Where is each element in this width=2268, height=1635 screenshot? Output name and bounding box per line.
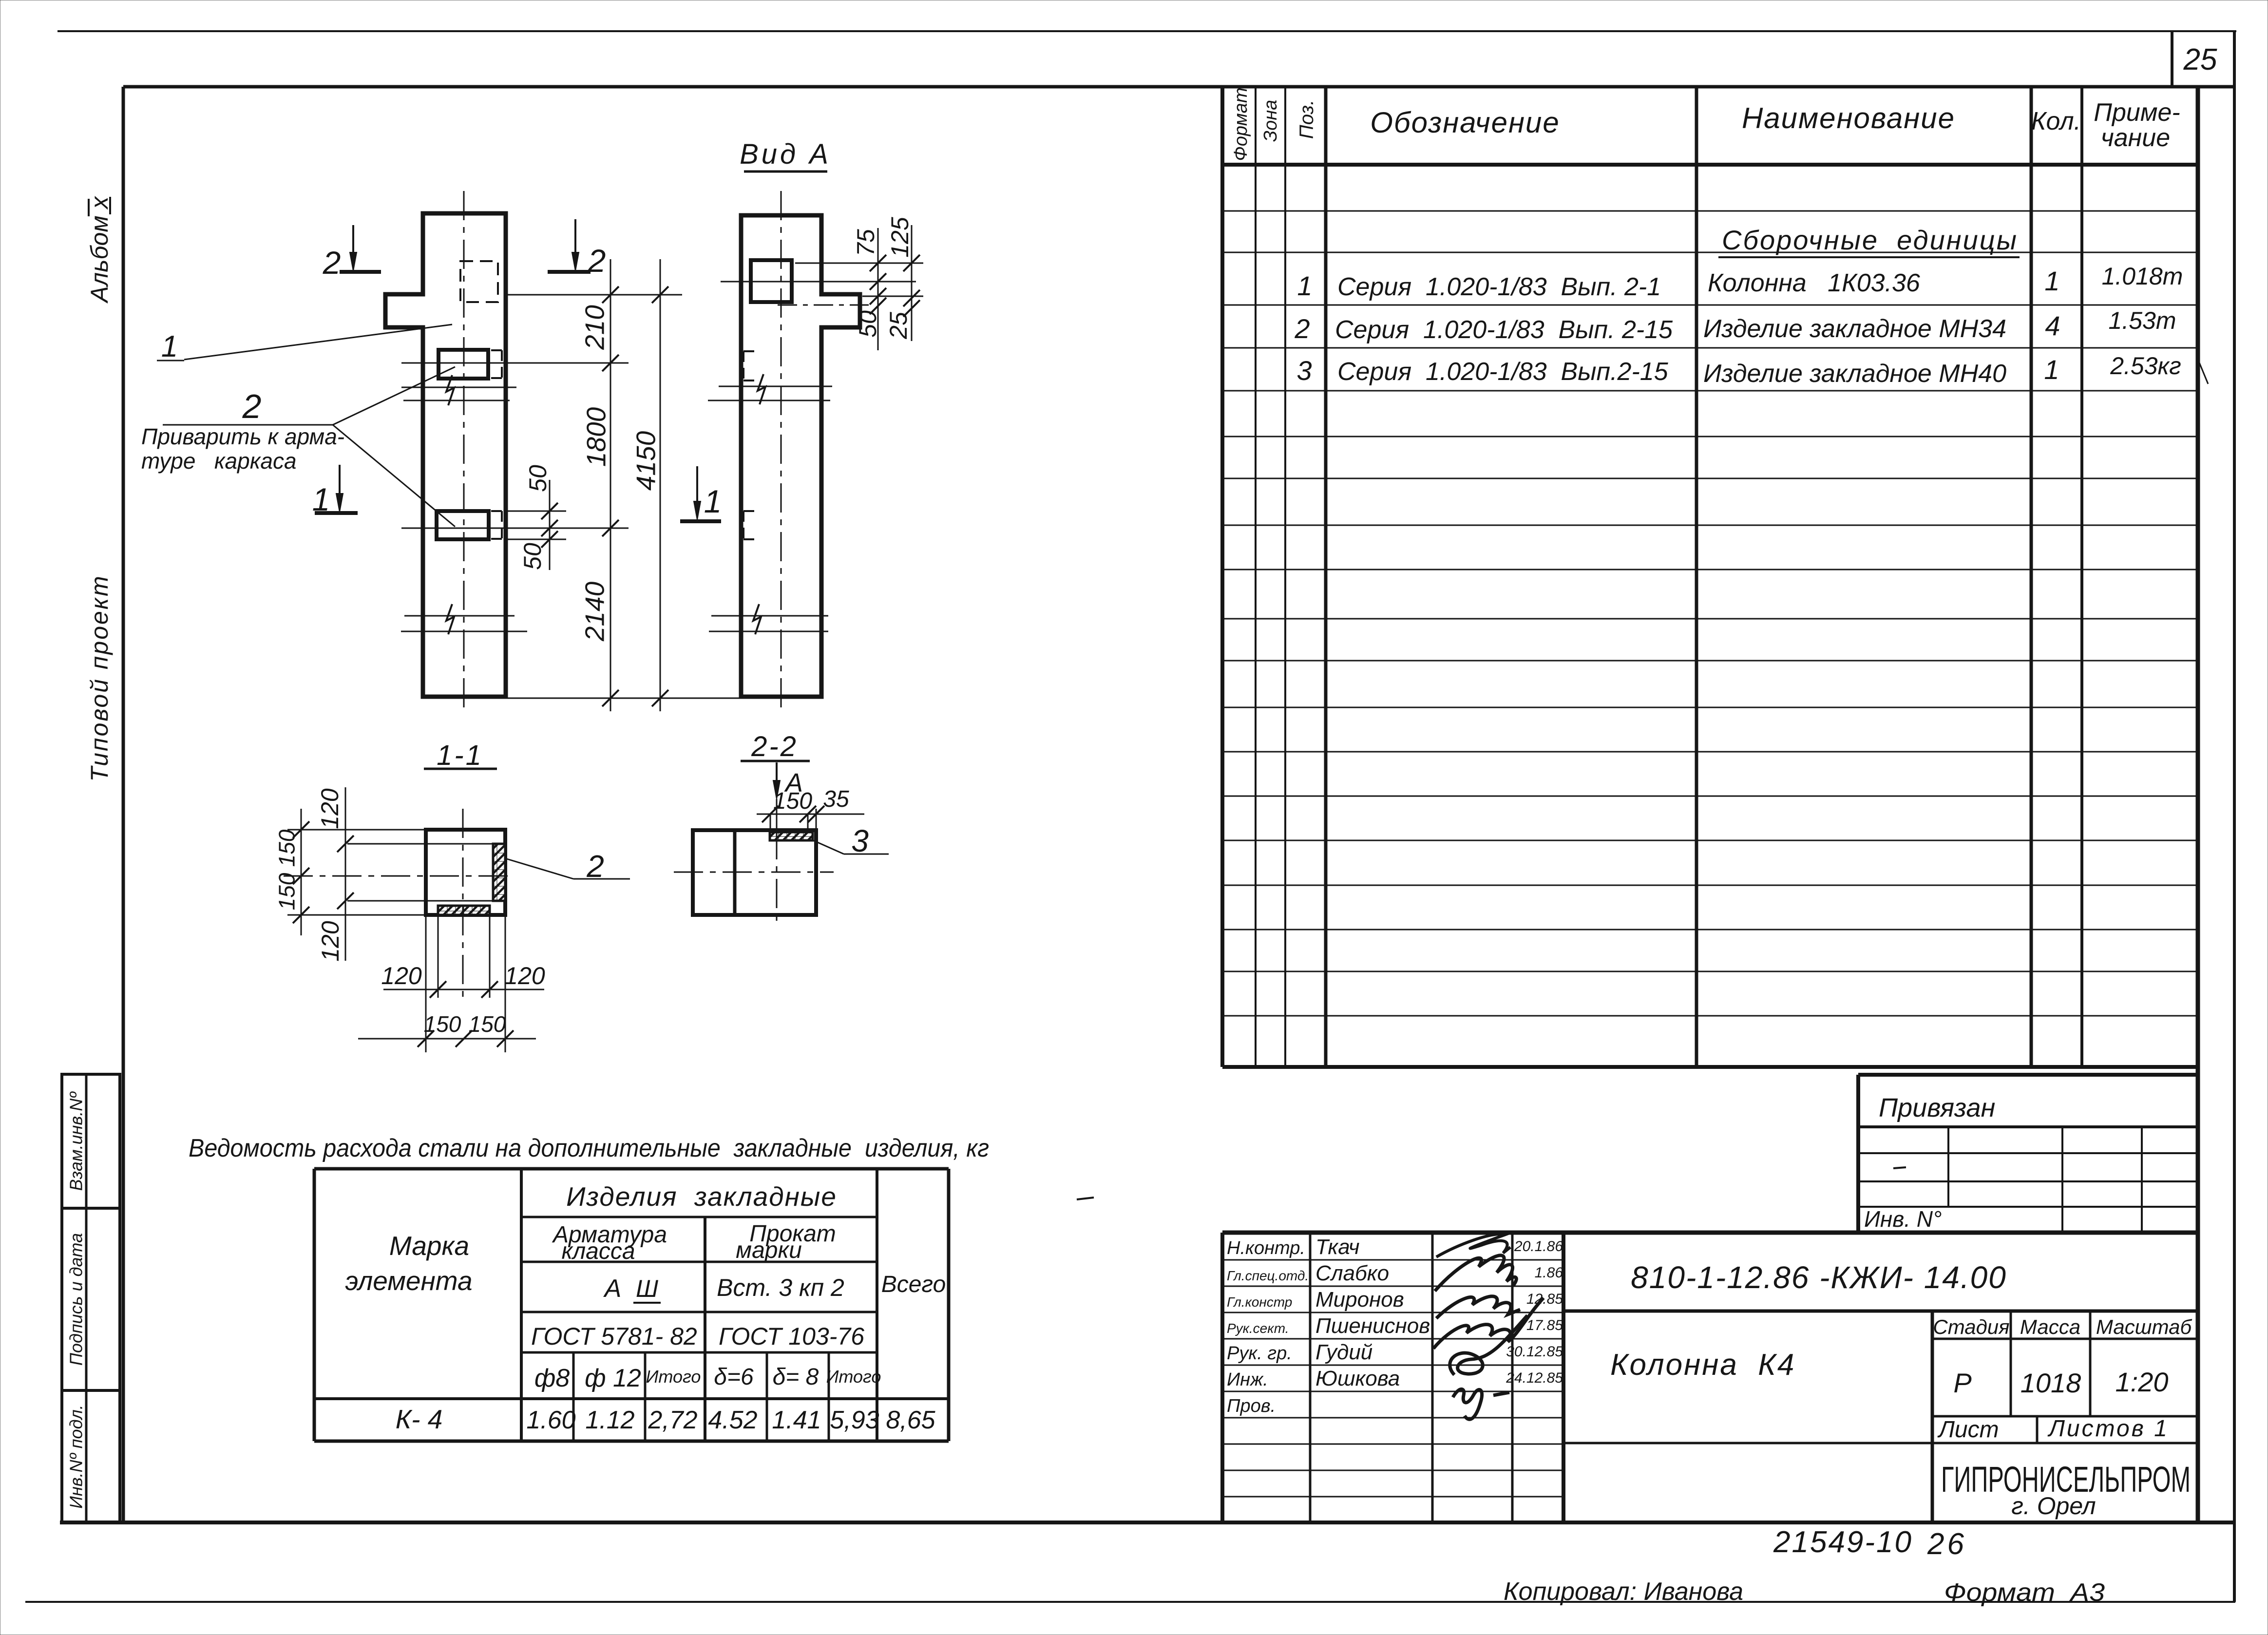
svg-text:г. Орел: г. Орел [2011,1492,2096,1520]
hidden embedded plate (dashed) [460,261,498,302]
svg-text:810-1-12.86 -КЖИ- 14.00: 810-1-12.86 -КЖИ- 14.00 [1631,1260,2007,1295]
svg-text:Альбом х: Альбом х [86,196,113,304]
svg-text:150: 150 [424,1011,461,1037]
svg-text:4.52: 4.52 [708,1406,757,1434]
svg-text:24.12.85: 24.12.85 [1506,1370,1563,1386]
dashed bracket at lower plate [501,511,503,539]
dimension line 4150 [660,259,661,711]
svg-text:3: 3 [1296,355,1312,386]
svg-text:Масштаб: Масштаб [2096,1315,2192,1338]
svg-text:Итого: Итого [826,1367,881,1387]
section 2-2 outline [693,830,816,915]
svg-text:1: 1 [2044,354,2059,385]
svg-text:марки: марки [736,1237,802,1263]
svg-text:1018: 1018 [2020,1368,2081,1398]
view arrow A [776,762,778,793]
svg-text:2: 2 [586,849,604,884]
section 1-1 left dim line 120/120 [345,787,346,961]
dashed bracket at upper plate [501,350,503,378]
svg-text:Ведомость расхода стали на доп: Ведомость расхода стали на дополнительны… [189,1134,989,1162]
svg-text:ф8: ф8 [534,1364,570,1392]
svg-text:25: 25 [2183,43,2217,76]
section 2-2 leader 3 [813,840,844,854]
break lines lower [404,615,515,617]
svg-text:21549-10: 21549-10 [1773,1525,1913,1559]
svg-text:75: 75 [852,229,879,256]
svg-text:1:20: 1:20 [2116,1367,2169,1397]
section 1-1 bottom dim line 150/150 [358,1038,536,1040]
section 1-1 plate bottom (hatched) [438,906,490,915]
title block grid [1222,1231,2198,1235]
centerline of column [463,191,465,712]
svg-text:2: 2 [588,243,606,279]
sheet margin bottom line [25,1601,2235,1603]
svg-text:150: 150 [773,788,812,814]
svg-text:1.60: 1.60 [526,1406,575,1434]
svg-text:Инв.Nº подл.: Инв.Nº подл. [66,1405,86,1509]
svg-text:2: 2 [1294,313,1310,344]
svg-text:4150: 4150 [631,431,661,491]
section 1-1 centerlines [462,809,464,998]
view A dim extensions [795,263,923,264]
svg-text:Рук. гр.: Рук. гр. [1227,1343,1292,1364]
svg-text:Серия 1.020-1/83 Вып. 2-15: Серия 1.020-1/83 Вып. 2-15 [1335,316,1673,344]
svg-text:25: 25 [885,312,912,340]
svg-text:120: 120 [317,921,344,962]
svg-text:Лист: Лист [1937,1417,1999,1443]
section 1-1 leader 2 [505,858,573,879]
svg-text:1.12: 1.12 [585,1406,634,1434]
svg-text:Инж.: Инж. [1227,1369,1268,1390]
view A centerline [781,191,782,711]
svg-text:Листов 1: Листов 1 [2047,1416,2169,1442]
svg-text:Колонна К4: Колонна К4 [1610,1348,1795,1382]
svg-text:2,72: 2,72 [648,1406,697,1434]
svg-text:Масса: Масса [2020,1315,2080,1338]
svg-text:Копировал: Иванова: Копировал: Иванова [1504,1578,1743,1606]
svg-text:Кол.: Кол. [2031,107,2081,135]
svg-text:Подпись и дата: Подпись и дата [66,1233,86,1366]
svg-text:1: 1 [2044,266,2059,296]
svg-text:Сборочные единицы: Сборочные единицы [1722,225,2018,255]
svg-text:δ=6: δ=6 [714,1364,754,1390]
svg-text:Серия 1.020-1/83 Вып. 2-1: Серия 1.020-1/83 Вып. 2-1 [1337,273,1661,301]
break lines upper [401,387,516,388]
svg-text:26: 26 [1927,1527,1967,1561]
svg-text:Н.контр.: Н.контр. [1227,1238,1305,1258]
svg-text:Марка: Марка [389,1231,469,1261]
svg-text:Обозначение: Обозначение [1370,106,1560,139]
view A dim line 125/25 [911,225,913,341]
svg-text:ГОСТ 5781- 82: ГОСТ 5781- 82 [531,1323,697,1350]
svg-text:Инв. N°: Инв. N° [1864,1206,1942,1232]
section 2-2 inner edge [733,830,737,915]
svg-text:1.86: 1.86 [1535,1265,1563,1281]
section 1-1 plate right (hatched) [493,844,505,901]
view A break lines lower [711,615,828,617]
section mark 1 (left) [315,511,358,515]
svg-text:125: 125 [886,217,914,258]
svg-text:120: 120 [381,962,422,989]
svg-text:Приварить к арма-: Приварить к арма- [141,424,344,449]
svg-text:А: А [603,1274,622,1303]
signatures (handwritten) [1436,1234,1510,1257]
svg-text:1.41: 1.41 [772,1406,821,1434]
svg-text:Стадия: Стадия [1933,1315,2009,1338]
section 1-1 outline [426,830,505,915]
svg-text:50: 50 [854,310,881,338]
stray mark [1077,1198,1094,1199]
sheet margin top line [57,30,2236,32]
svg-text:5,93: 5,93 [830,1406,879,1434]
svg-text:150: 150 [274,829,300,867]
svg-text:17.85: 17.85 [1526,1317,1563,1333]
svg-text:1.018т: 1.018т [2102,263,2183,290]
small 50/50 dims at lower plate [504,511,566,512]
svg-text:Поз.: Поз. [1296,100,1317,139]
svg-text:1-1: 1-1 [437,740,483,771]
steel table grid [313,1169,316,1441]
svg-text:Гл.спец.отд.: Гл.спец.отд. [1227,1268,1309,1283]
view A break lines upper [719,386,832,387]
svg-text:ф 12: ф 12 [585,1364,641,1392]
svg-text:Слабко: Слабко [1315,1261,1389,1285]
svg-text:2: 2 [242,387,262,425]
svg-text:4: 4 [2045,310,2060,341]
svg-text:1: 1 [704,483,722,519]
svg-text:8,65: 8,65 [886,1406,935,1434]
section mark 2 (left) [340,270,381,274]
svg-text:120: 120 [316,788,343,829]
svg-text:Всего: Всего [881,1272,946,1297]
svg-text:12.85: 12.85 [1526,1291,1563,1307]
svg-text:класса: класса [561,1238,635,1264]
svg-text:Гудий: Гудий [1315,1340,1372,1364]
svg-text:2-2: 2-2 [751,731,798,762]
section 2-2 dims 150/35 [757,814,864,815]
section mark 2 (right) [548,270,591,274]
svg-text:Приме-: Приме- [2094,98,2180,127]
svg-text:Изделия закладные: Изделия закладные [566,1181,837,1212]
svg-text:35: 35 [823,786,849,812]
view A dim line 75/50 [877,228,879,350]
svg-text:Рук.сект.: Рук.сект. [1227,1321,1289,1336]
svg-text:Привязан: Привязан [1879,1093,1995,1122]
svg-text:Итого: Итого [646,1367,701,1387]
svg-text:150: 150 [274,873,300,910]
svg-text:Вид А: Вид А [740,138,831,170]
svg-text:3: 3 [851,823,869,858]
svg-text:1: 1 [1297,270,1312,301]
column K4 view A outline [741,215,860,697]
section 1-1 left extensions [287,829,426,831]
section 2-2 centerlines [776,799,778,830]
svg-text:Пшениснов: Пшениснов [1315,1314,1430,1338]
svg-text:δ= 8: δ= 8 [773,1364,819,1390]
svg-text:Серия 1.020-1/83 Вып.2-15: Серия 1.020-1/83 Вып.2-15 [1337,358,1669,386]
svg-text:туре каркаса: туре каркаса [141,448,297,474]
svg-text:Юшкова: Юшкова [1315,1367,1400,1390]
svg-text:50: 50 [519,543,546,570]
svg-text:Пров.: Пров. [1227,1396,1276,1416]
embedded plate MH34 lower [437,511,489,539]
dashed plate edge lower [743,511,744,539]
svg-text:Гл.констр: Гл.констр [1227,1294,1292,1310]
svg-text:Формат: Формат [1231,88,1251,161]
svg-text:210: 210 [580,305,610,350]
svg-text:элемента: элемента [345,1266,472,1296]
embedded plate MH34 upper [438,350,488,379]
column K4 elevation (view 1) outline [385,213,506,697]
svg-text:Изделие закладное МН34: Изделие закладное МН34 [1703,315,2006,343]
section 1-1 bottom dim line 120/120 [383,989,544,990]
specification table grid [1220,87,1224,1067]
svg-text:Типовой проект: Типовой проект [86,574,113,781]
page number box 25 [2171,31,2173,87]
stamp box Подпись и дата [62,1208,120,1390]
section 2-2 plate (hatched) [770,832,813,840]
svg-text:2140: 2140 [580,581,610,642]
dimension line chain 210/1800/2140 [610,259,611,711]
svg-text:2: 2 [323,245,341,281]
stamp box Инв.№ подл. [62,1390,120,1522]
stamp box Взам.инв.№ [62,1074,120,1208]
svg-text:Колонна 1К03.36: Колонна 1К03.36 [1708,269,1920,297]
dashed plate edge upper [743,351,744,380]
svg-text:2.53кг: 2.53кг [2110,352,2181,380]
upper plate axis line [401,362,629,364]
dimension extension lines [506,294,682,296]
section mark 1 (right) [680,519,721,523]
svg-text:20.1.86: 20.1.86 [1514,1238,1563,1255]
svg-text:Миронов: Миронов [1315,1288,1404,1312]
svg-text:1800: 1800 [581,407,611,467]
svg-text:50: 50 [524,465,552,492]
svg-text:Зона: Зона [1260,100,1281,142]
svg-text:Ткач: Ткач [1315,1235,1360,1259]
svg-text:Взам.инв.Nº: Взам.инв.Nº [66,1091,86,1191]
svg-text:1.53т: 1.53т [2109,307,2176,334]
section 1-1 left dim line 150/150 [301,809,302,935]
svg-text:чание: чание [2101,124,2170,152]
svg-text:Ш: Ш [636,1275,659,1302]
frame border [123,85,2234,89]
svg-text:120: 120 [504,962,545,989]
svg-text:К- 4: К- 4 [396,1404,443,1434]
corbel axis dash-dot [778,304,869,306]
svg-text:Изделие закладное МН40: Изделие закладное МН40 [1703,360,2006,388]
view A embedded plate MH40 [751,260,792,302]
svg-text:Наименование: Наименование [1742,102,1955,134]
lower plate axis line [401,528,629,529]
svg-text:Формат А3: Формат А3 [1944,1578,2105,1607]
section 1-1 bottom extensions [425,915,427,1052]
svg-text:150: 150 [469,1011,506,1037]
svg-text:1: 1 [312,481,330,517]
svg-text:Р: Р [1953,1368,1971,1398]
svg-text:ГОСТ 103-76: ГОСТ 103-76 [719,1323,864,1350]
Привязан box [1858,1073,2198,1077]
svg-text:30.12.85: 30.12.85 [1506,1344,1563,1360]
svg-text:Вст. 3 кп 2: Вст. 3 кп 2 [717,1274,844,1301]
svg-text:1: 1 [161,330,178,363]
